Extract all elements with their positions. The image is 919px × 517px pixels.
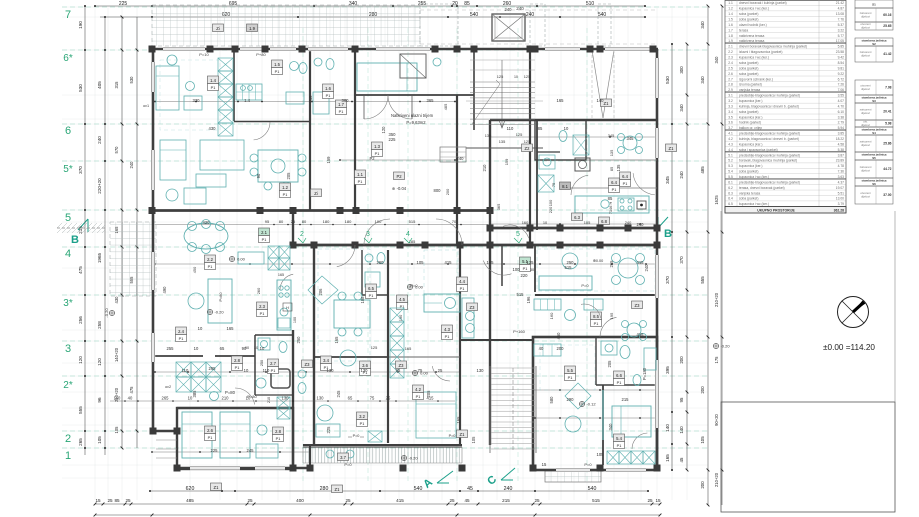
svg-text:10: 10 xyxy=(564,126,569,131)
svg-text:125: 125 xyxy=(371,345,378,350)
right dimension chains xyxy=(671,44,673,470)
svg-text:220: 220 xyxy=(548,206,553,213)
svg-text:P=0: P=0 xyxy=(344,462,352,467)
svg-text:3.5: 3.5 xyxy=(728,115,733,119)
svg-text:Zi: Zi xyxy=(216,26,220,31)
svg-text:ov2: ov2 xyxy=(165,385,171,389)
svg-text:P1: P1 xyxy=(523,267,528,271)
svg-text:196: 196 xyxy=(526,296,531,304)
svg-text:225: 225 xyxy=(389,137,397,142)
svg-text:S4: S4 xyxy=(872,131,876,135)
svg-text:15: 15 xyxy=(542,462,547,467)
svg-text:370: 370 xyxy=(78,166,83,174)
svg-text:340: 340 xyxy=(679,104,684,112)
svg-text:240: 240 xyxy=(504,486,513,492)
svg-text:365: 365 xyxy=(496,204,501,211)
svg-text:20.41: 20.41 xyxy=(883,110,891,114)
windows top wall xyxy=(163,47,205,51)
wall axis5 apartment separation xyxy=(152,209,490,212)
svg-text:Z1: Z1 xyxy=(214,485,220,490)
furniture top-left apt: bath xyxy=(290,62,299,71)
svg-text:125: 125 xyxy=(524,74,531,79)
svg-text:210+20: 210+20 xyxy=(714,292,719,307)
svg-text:2.4: 2.4 xyxy=(178,329,184,334)
svg-text:P1: P1 xyxy=(339,110,344,114)
svg-text:6.10: 6.10 xyxy=(838,110,845,114)
svg-text:4.70: 4.70 xyxy=(838,104,845,108)
svg-text:6.3: 6.3 xyxy=(728,191,733,195)
mid-left bedroom beds xyxy=(182,412,212,458)
centre apt lower furniture xyxy=(317,405,333,421)
svg-text:120: 120 xyxy=(381,126,386,134)
piers bottom xyxy=(174,465,181,472)
svg-text:25: 25 xyxy=(449,498,455,503)
svg-text:6.4: 6.4 xyxy=(728,197,733,201)
svg-text:165: 165 xyxy=(665,454,670,462)
svg-text:Z3: Z3 xyxy=(470,305,476,310)
svg-text:135: 135 xyxy=(485,133,492,138)
svg-text:P1: P1 xyxy=(271,369,276,373)
room tags unit1 xyxy=(213,24,224,32)
svg-text:P1: P1 xyxy=(623,182,628,186)
svg-text:165: 165 xyxy=(334,336,339,344)
svg-text:3.55: 3.55 xyxy=(838,94,845,98)
svg-text:485: 485 xyxy=(186,498,194,503)
svg-text:400: 400 xyxy=(296,498,304,503)
svg-text:2.2: 2.2 xyxy=(207,257,213,262)
svg-text:P1: P1 xyxy=(568,376,573,380)
svg-text:6: 6 xyxy=(65,125,71,137)
svg-text:Zi: Zi xyxy=(314,191,318,196)
svg-text:P+160: P+160 xyxy=(513,329,525,334)
svg-text:P1: P1 xyxy=(326,94,331,98)
svg-text:kupaonica i wc (ker.): kupaonica i wc (ker.) xyxy=(739,202,769,206)
bottom-right apt furniture xyxy=(612,406,651,437)
svg-text:3.79: 3.79 xyxy=(838,202,845,206)
svg-text:340: 340 xyxy=(700,21,705,29)
svg-text:45: 45 xyxy=(467,486,473,492)
svg-text:340: 340 xyxy=(700,76,705,84)
windows bottom walls xyxy=(190,466,240,470)
wall piers top xyxy=(149,46,156,53)
svg-text:9.42: 9.42 xyxy=(838,56,845,60)
svg-text:P1: P1 xyxy=(276,437,281,441)
svg-text:P1: P1 xyxy=(375,152,380,156)
svg-text:0.00: 0.00 xyxy=(420,371,429,376)
svg-text:280: 280 xyxy=(320,486,329,492)
svg-text:S5: S5 xyxy=(872,156,876,160)
svg-text:540: 540 xyxy=(598,12,607,18)
svg-text:23.58: 23.58 xyxy=(836,50,844,54)
svg-text:345: 345 xyxy=(627,136,635,141)
svg-text:-0.20: -0.20 xyxy=(214,310,224,315)
section hatch band left xyxy=(57,223,105,233)
svg-text:108: 108 xyxy=(360,296,365,304)
wall axis4 spine xyxy=(293,244,657,247)
svg-text:490: 490 xyxy=(162,286,167,294)
svg-text:30: 30 xyxy=(530,268,534,272)
svg-text:90: 90 xyxy=(242,346,247,351)
svg-text:kupaonica i wc (ker.): kupaonica i wc (ker.) xyxy=(739,56,769,60)
lift shaft xyxy=(492,14,525,41)
svg-text:4.37: 4.37 xyxy=(838,180,845,184)
svg-text:4.78: 4.78 xyxy=(838,164,845,168)
svg-text:160: 160 xyxy=(549,312,554,319)
svg-text:predsoblje-blagovaonica i kuhi: predsoblje-blagovaonica i kuhinja (parke… xyxy=(739,132,800,136)
svg-text:7.26: 7.26 xyxy=(838,83,845,87)
svg-text:3*: 3* xyxy=(63,298,73,309)
interior chain y224 left xyxy=(155,224,488,226)
svg-text:6.3: 6.3 xyxy=(574,215,580,220)
svg-text:240: 240 xyxy=(637,222,645,227)
upper staircase xyxy=(470,81,535,83)
svg-text:140+20: 140+20 xyxy=(114,347,119,362)
svg-text:450: 450 xyxy=(192,266,197,273)
mid-right apt furniture xyxy=(466,312,475,321)
svg-text:1.4: 1.4 xyxy=(210,78,216,83)
svg-text:580: 580 xyxy=(549,396,554,404)
svg-text:6.1: 6.1 xyxy=(728,180,733,184)
svg-text:kupaonica (ker.): kupaonica (ker.) xyxy=(739,99,762,103)
top-left apt partition walls xyxy=(309,49,311,210)
svg-text:130: 130 xyxy=(361,368,369,373)
svg-text:4.2: 4.2 xyxy=(415,387,421,392)
svg-text:±0.00 =114.20: ±0.00 =114.20 xyxy=(823,343,875,352)
svg-text:4.3: 4.3 xyxy=(444,327,450,332)
svg-text:205: 205 xyxy=(607,360,612,368)
svg-text:315: 315 xyxy=(114,81,119,89)
svg-text:240: 240 xyxy=(679,171,684,179)
svg-text:450: 450 xyxy=(556,332,561,340)
svg-text:120: 120 xyxy=(78,356,83,364)
top-right apt dining light xyxy=(623,136,637,150)
svg-text:25: 25 xyxy=(386,396,391,401)
svg-text:95: 95 xyxy=(396,368,401,373)
svg-text:kupaonica i wc (ker.): kupaonica i wc (ker.) xyxy=(739,7,769,11)
svg-text:10: 10 xyxy=(198,326,203,331)
svg-text:P1: P1 xyxy=(208,265,213,269)
svg-text:soba (parket): soba (parket) xyxy=(739,170,758,174)
svg-text:P1: P1 xyxy=(612,188,617,192)
svg-text:1.5: 1.5 xyxy=(728,18,733,22)
svg-text:220: 220 xyxy=(521,273,529,278)
furniture top-left apt: kitchen strip xyxy=(218,58,233,71)
svg-text:P=9,63m2: P=9,63m2 xyxy=(406,120,426,125)
centre apt bath fixtures xyxy=(365,254,373,262)
wall piers axis4 xyxy=(290,242,297,249)
svg-text:4.07: 4.07 xyxy=(838,99,845,103)
stair core walls xyxy=(473,49,475,130)
svg-text:5.3: 5.3 xyxy=(728,164,733,168)
svg-text:9.81: 9.81 xyxy=(838,66,845,70)
svg-text:dijelovi: dijelovi xyxy=(861,87,870,91)
svg-text:izlazni i blagovaonica (parket: izlazni i blagovaonica (parket) xyxy=(739,50,782,54)
svg-text:2.5: 2.5 xyxy=(728,66,733,70)
svg-text:250: 250 xyxy=(260,360,264,366)
svg-text:25: 25 xyxy=(438,368,443,373)
svg-text:105: 105 xyxy=(700,436,705,444)
svg-text:7: 7 xyxy=(65,9,71,21)
top-right apt bath/walls xyxy=(536,120,538,230)
interior dimension chain lines xyxy=(155,101,310,103)
extension line lattice xyxy=(94,8,96,500)
svg-text:P=0: P=0 xyxy=(353,434,360,438)
svg-text:hodnik (parket): hodnik (parket) xyxy=(739,121,761,125)
svg-text:4.58: 4.58 xyxy=(838,142,845,146)
svg-text:200: 200 xyxy=(700,481,705,489)
bottom-right bath top xyxy=(620,346,630,359)
svg-text:1.5: 1.5 xyxy=(274,62,280,67)
svg-text:9.22: 9.22 xyxy=(838,72,845,76)
svg-text:4: 4 xyxy=(65,248,71,260)
svg-text:530: 530 xyxy=(129,76,134,84)
svg-text:dijelovi: dijelovi xyxy=(861,54,870,58)
svg-text:85: 85 xyxy=(608,196,613,201)
svg-text:405: 405 xyxy=(97,81,102,89)
small bath centre-left xyxy=(298,370,306,378)
svg-text:370: 370 xyxy=(665,276,670,284)
svg-text:135: 135 xyxy=(616,164,621,172)
svg-text:P1: P1 xyxy=(360,422,365,426)
svg-text:2.1: 2.1 xyxy=(728,45,733,49)
svg-text:P1: P1 xyxy=(262,238,267,242)
svg-text:385: 385 xyxy=(192,390,197,398)
svg-text:kuhinja, blagovaonica i dnevni: kuhinja, blagovaonica i dnevni b. (parke… xyxy=(739,104,799,108)
svg-text:terasa, dnevni boravak (parket: terasa, dnevni boravak (parket) xyxy=(739,186,785,190)
svg-text:175: 175 xyxy=(714,356,719,364)
svg-text:23.89: 23.89 xyxy=(836,159,844,163)
svg-text:P=180: P=180 xyxy=(642,367,647,380)
svg-text:1.4: 1.4 xyxy=(244,98,250,103)
svg-text:100: 100 xyxy=(548,199,553,206)
svg-text:3.2: 3.2 xyxy=(728,99,733,103)
svg-text:P2: P2 xyxy=(396,174,402,179)
svg-text:5.37: 5.37 xyxy=(838,23,845,27)
svg-text:205: 205 xyxy=(286,172,291,180)
svg-text:345: 345 xyxy=(665,176,670,184)
svg-text:105: 105 xyxy=(114,426,119,434)
svg-text:15: 15 xyxy=(95,498,101,503)
svg-text:1.1: 1.1 xyxy=(357,172,363,177)
svg-text:215: 215 xyxy=(622,397,630,402)
svg-text:vanjska terasa: vanjska terasa xyxy=(739,191,760,195)
svg-text:530: 530 xyxy=(78,84,83,92)
svg-text:340: 340 xyxy=(714,56,719,64)
svg-text:5.1: 5.1 xyxy=(728,153,733,157)
svg-text:⊕0.00: ⊕0.00 xyxy=(593,259,604,263)
panel borders xyxy=(720,211,722,402)
svg-text:510: 510 xyxy=(586,1,595,7)
left dimension chains xyxy=(84,6,86,455)
svg-text:6.6: 6.6 xyxy=(616,373,622,378)
svg-text:10: 10 xyxy=(194,346,199,351)
svg-text:kuhinja, blagovaonica i dnevni: kuhinja, blagovaonica i dnevni b. (parke… xyxy=(739,137,799,141)
svg-text:2.3: 2.3 xyxy=(259,304,265,309)
svg-text:485: 485 xyxy=(700,166,705,174)
svg-text:159: 159 xyxy=(326,156,331,164)
svg-text:250: 250 xyxy=(296,336,301,344)
svg-text:25.86: 25.86 xyxy=(883,142,891,146)
svg-text:Z1: Z1 xyxy=(604,101,610,106)
svg-text:80: 80 xyxy=(279,219,284,224)
svg-text:dijelovi: dijelovi xyxy=(861,111,870,115)
roof terrace hatch top xyxy=(152,5,420,46)
mid-left living: sofa group xyxy=(188,293,204,309)
svg-text:terasa: terasa xyxy=(739,28,748,32)
svg-text:265: 265 xyxy=(609,260,614,268)
svg-text:25.65: 25.65 xyxy=(883,24,891,28)
svg-text:P1: P1 xyxy=(416,395,421,399)
svg-text:19.07: 19.07 xyxy=(836,186,844,190)
svg-text:430: 430 xyxy=(209,126,217,131)
svg-text:dijelovi: dijelovi xyxy=(861,26,870,30)
furniture top-left apt: dining set xyxy=(258,150,298,182)
svg-text:362.28: 362.28 xyxy=(834,209,844,213)
mid-right lower table xyxy=(627,323,641,337)
schedule table xyxy=(725,4,846,6)
porch steps xyxy=(440,147,466,162)
entry steps left xyxy=(156,439,177,441)
svg-text:165: 165 xyxy=(405,346,412,351)
svg-text:225: 225 xyxy=(211,448,219,453)
svg-text:P1: P1 xyxy=(617,381,622,385)
svg-text:85: 85 xyxy=(464,1,470,7)
dashed roof strips top right xyxy=(420,4,458,46)
svg-text:ulazni hodnik (ker.): ulazni hodnik (ker.) xyxy=(739,23,767,27)
svg-text:S1: S1 xyxy=(872,2,876,6)
roof slope triangle xyxy=(592,50,603,118)
svg-text:555: 555 xyxy=(700,276,705,284)
svg-text:165: 165 xyxy=(487,260,495,265)
svg-text:P=10: P=10 xyxy=(199,52,209,57)
svg-text:P+80: P+80 xyxy=(256,52,266,57)
svg-text:240: 240 xyxy=(625,220,632,225)
svg-text:5: 5 xyxy=(65,212,71,224)
svg-text:75: 75 xyxy=(551,183,556,187)
svg-text:Z3: Z3 xyxy=(635,303,641,308)
svg-text:⊕ -0.04: ⊕ -0.04 xyxy=(392,186,407,191)
svg-text:7.36: 7.36 xyxy=(838,170,845,174)
svg-text:10: 10 xyxy=(188,396,193,401)
svg-text:105: 105 xyxy=(417,260,425,265)
svg-text:340: 340 xyxy=(608,423,613,431)
svg-text:85: 85 xyxy=(609,167,614,171)
svg-text:2: 2 xyxy=(300,231,304,238)
svg-text:330: 330 xyxy=(193,98,201,103)
svg-text:2.79: 2.79 xyxy=(838,121,845,125)
svg-text:kupaonica (ker.): kupaonica (ker.) xyxy=(739,142,762,146)
svg-text:1.4: 1.4 xyxy=(728,12,733,16)
svg-text:515: 515 xyxy=(517,292,525,297)
svg-text:6.4: 6.4 xyxy=(611,180,617,185)
mid-left living: dining oval xyxy=(184,223,228,249)
svg-text:485: 485 xyxy=(443,104,448,111)
windows right wall xyxy=(655,58,659,98)
svg-text:240: 240 xyxy=(457,156,465,161)
svg-text:180: 180 xyxy=(345,219,352,224)
svg-text:2.8: 2.8 xyxy=(234,358,240,363)
svg-text:5.51: 5.51 xyxy=(838,191,845,195)
svg-text:3.22: 3.22 xyxy=(838,28,845,32)
svg-text:P1: P1 xyxy=(235,366,240,370)
svg-text:Z1: Z1 xyxy=(669,146,675,151)
svg-text:240: 240 xyxy=(505,7,513,12)
svg-text:2.3: 2.3 xyxy=(728,56,733,60)
svg-text:210: 210 xyxy=(267,397,271,403)
svg-text:4.1: 4.1 xyxy=(728,132,733,136)
svg-text:soba (parket): soba (parket) xyxy=(739,66,758,70)
svg-text:dijelovi: dijelovi xyxy=(861,143,870,147)
svg-text:258: 258 xyxy=(97,321,102,329)
svg-text:135: 135 xyxy=(499,139,506,144)
svg-text:6.5: 6.5 xyxy=(368,286,374,291)
svg-text:25: 25 xyxy=(247,498,253,503)
svg-text:430: 430 xyxy=(114,296,119,304)
svg-text:25: 25 xyxy=(647,498,653,503)
svg-text:P1: P1 xyxy=(369,294,374,298)
svg-text:6.4: 6.4 xyxy=(622,174,628,179)
svg-text:260: 260 xyxy=(256,287,261,294)
svg-text:H: H xyxy=(286,306,289,310)
mid-right kitchen checker xyxy=(534,299,561,310)
svg-text:190: 190 xyxy=(78,21,83,29)
svg-text:135: 135 xyxy=(609,150,614,157)
svg-text:4: 4 xyxy=(406,231,410,238)
lower staircase xyxy=(491,367,535,369)
svg-text:515: 515 xyxy=(409,219,416,224)
svg-text:210: 210 xyxy=(222,396,230,401)
svg-text:256: 256 xyxy=(78,316,83,324)
svg-text:8.1: 8.1 xyxy=(562,184,568,189)
svg-text:540: 540 xyxy=(470,12,479,18)
svg-text:7.76: 7.76 xyxy=(838,18,845,22)
svg-text:-0.12: -0.12 xyxy=(586,402,596,407)
svg-text:2: 2 xyxy=(65,433,71,445)
left terrace hatch xyxy=(110,222,156,296)
svg-text:45: 45 xyxy=(464,498,470,503)
svg-text:1.9: 1.9 xyxy=(249,26,255,31)
svg-text:6.8: 6.8 xyxy=(601,219,607,224)
svg-text:P1: P1 xyxy=(617,444,622,448)
svg-text:620: 620 xyxy=(186,486,195,492)
svg-text:1.7: 1.7 xyxy=(728,28,733,32)
svg-text:1.2: 1.2 xyxy=(728,7,733,11)
svg-text:415: 415 xyxy=(637,260,645,265)
svg-text:215: 215 xyxy=(308,95,313,103)
svg-text:5.85: 5.85 xyxy=(838,45,845,49)
svg-text:365: 365 xyxy=(427,98,435,103)
svg-text:-0.20: -0.20 xyxy=(104,308,109,318)
svg-text:3.87: 3.87 xyxy=(838,153,845,157)
svg-text:P=80: P=80 xyxy=(247,394,257,399)
svg-text:420: 420 xyxy=(203,220,211,225)
svg-text:75: 75 xyxy=(370,396,375,401)
svg-text:7.08: 7.08 xyxy=(885,86,892,90)
svg-text:soba (parket): soba (parket) xyxy=(739,110,758,114)
svg-text:240: 240 xyxy=(644,264,649,272)
svg-text:540: 540 xyxy=(414,486,423,492)
svg-text:110: 110 xyxy=(507,126,514,131)
svg-text:200: 200 xyxy=(700,386,705,394)
svg-text:2*: 2* xyxy=(63,380,73,391)
svg-text:1.2: 1.2 xyxy=(282,185,288,190)
mid-left wardrobe xboxes xyxy=(176,362,191,377)
svg-text:3.4: 3.4 xyxy=(728,110,733,114)
outer wall left xyxy=(152,49,155,431)
svg-text:Z1: Z1 xyxy=(335,487,341,492)
svg-text:dijelovi: dijelovi xyxy=(861,195,870,199)
svg-text:dijelovi: dijelovi xyxy=(861,169,870,173)
